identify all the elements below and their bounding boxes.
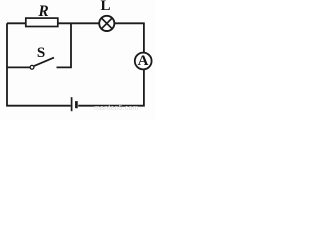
wire: switch branch from left side to switch pivot xyxy=(7,66,30,68)
label L (lamp label) xyxy=(98,0,113,14)
label S (switch label) xyxy=(33,46,49,61)
switch S xyxy=(30,58,54,70)
label R (resistor value label) xyxy=(35,4,52,20)
lamp L xyxy=(99,16,114,31)
ammeter A xyxy=(135,53,152,70)
wire: lamp L to top-right corner and down to ammeter xyxy=(114,23,143,52)
label A (ammeter letter) xyxy=(135,54,151,69)
battery xyxy=(72,97,77,111)
wire: switch right contact to branch corner, up to top node xyxy=(57,23,72,67)
watermark manfen5.com xyxy=(94,105,139,113)
wire: resistor R to node junction and on to lamp L xyxy=(58,22,99,24)
resistor R xyxy=(26,18,58,26)
wire: ammeter to bottom-right corner, along bottom to battery right plate xyxy=(78,70,144,106)
wire: top-left corner to resistor R left lead xyxy=(7,22,26,24)
wire: battery left plate to bottom-left corner and up left side xyxy=(7,23,71,105)
